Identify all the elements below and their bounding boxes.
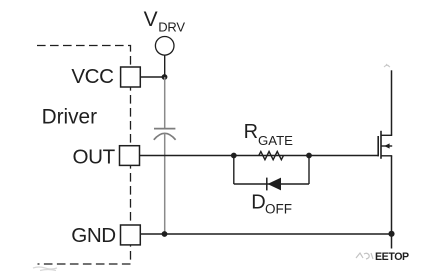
svg-text:Driver: Driver: [42, 106, 98, 129]
svg-text:GATE: GATE: [258, 133, 293, 148]
wire diode branch horizontal: [234, 183, 309, 185]
watermark ghost near drain top: [384, 64, 390, 67]
svg-text:R: R: [244, 121, 258, 143]
transistor Q1 gate bar: [377, 136, 379, 156]
node resistor right junction dot: [306, 153, 312, 159]
voltage source V_DRV circle: [155, 37, 174, 56]
wire GND rail: [140, 233, 391, 235]
wire diode branch right vertical: [308, 156, 310, 185]
driver block dashed outline: [37, 46, 131, 265]
diode D_OFF cathode bar: [266, 178, 268, 191]
transistor Q1 drain stub: [381, 134, 392, 136]
capacitor C1 upper lead (gray): [164, 77, 166, 128]
svg-text:OUT: OUT: [73, 146, 116, 169]
transistor Q1 body stub: [381, 145, 392, 147]
pin VCC square: [121, 67, 141, 87]
diode D_OFF triangle: [268, 178, 282, 191]
watermark ghost glyphs bottom: [356, 253, 373, 259]
wire source lead down: [391, 156, 393, 249]
transistor Q1 body arrow: [384, 143, 389, 148]
wire drain lead up: [391, 70, 393, 135]
svg-text:OFF: OFF: [265, 202, 292, 217]
wire V_DRV circle to VCC node: [164, 55, 166, 77]
svg-text:GND: GND: [71, 224, 116, 247]
node source to GND rail junction dot: [388, 231, 394, 237]
node resistor left junction dot: [231, 153, 237, 159]
capacitor C1 lower lead (gray): [164, 133, 166, 234]
svg-text:V: V: [144, 8, 158, 31]
wire diode branch left vertical: [233, 156, 235, 185]
svg-text:VCC: VCC: [71, 65, 114, 88]
node capacitor to GND rail junction dot: [162, 231, 168, 237]
wire OUT pin to MOSFET gate: [140, 155, 379, 157]
svg-text:EETOP: EETOP: [375, 251, 409, 263]
pin GND square: [121, 225, 141, 245]
transistor Q1 channel bar: [380, 131, 382, 159]
watermark ghost smudge bottom left: [33, 267, 57, 271]
capacitor C1 plates (gray): [154, 128, 175, 130]
svg-text:DRV: DRV: [158, 19, 185, 34]
node VCC junction dot: [162, 74, 168, 80]
pin OUT square: [120, 146, 140, 166]
wire VCC pin to node: [140, 76, 164, 78]
resistor R_GATE zigzag: [259, 152, 284, 160]
svg-text:D: D: [251, 191, 265, 213]
transistor Q1 source stub: [381, 155, 392, 157]
